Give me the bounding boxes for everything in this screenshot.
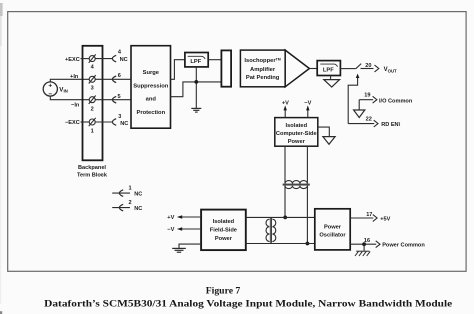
analog common triangle under LPF2 (324, 80, 340, 88)
svg-text:+In: +In (70, 74, 79, 80)
field ground wire (179, 244, 201, 248)
junction node pin16 (362, 242, 366, 246)
svg-text:2: 2 (91, 107, 94, 113)
wire amp to LPF2 (309, 68, 317, 70)
transformer T2 right winding (272, 219, 275, 241)
svg-text:NC: NC (120, 57, 128, 63)
svg-text:+5V: +5V (380, 216, 390, 222)
svg-text:NC: NC (134, 191, 142, 197)
pin 19 arrow (373, 96, 377, 103)
svg-text:20: 20 (365, 63, 371, 69)
ground (signal) (191, 108, 201, 112)
transformer T1 left lead (284, 146, 286, 183)
wire terminal3 to surge block, pin 6 (95, 78, 131, 80)
svg-text:−V: −V (304, 100, 311, 106)
wire +EXC (81, 58, 90, 60)
+V output arrow (182, 216, 201, 218)
voltage source Vin (43, 82, 57, 96)
svg-text:VIN: VIN (59, 86, 68, 93)
svg-text:−In: −In (71, 103, 80, 109)
svg-text:RD EN\: RD EN\ (381, 122, 400, 128)
svg-text:VOUT: VOUT (384, 67, 397, 73)
transformer T2 core (269, 218, 271, 243)
transformer T1 windings (285, 181, 307, 184)
terminal 1 (89, 118, 96, 126)
junction node top bus (283, 216, 287, 220)
pin 16 wire (350, 243, 376, 245)
LPF1 box (185, 53, 208, 67)
svg-text:Power Common: Power Common (382, 243, 425, 249)
pin 22 wire (348, 123, 374, 125)
wire LPF2 bottom to common (330, 76, 332, 80)
svg-text:Pat Pending: Pat Pending (246, 75, 280, 81)
svg-text:+EXC: +EXC (65, 57, 80, 63)
isochopper amplifier U2 (240, 50, 285, 87)
wire Vin- to terminal 2 (50, 96, 89, 100)
svg-text:Power: Power (215, 236, 233, 242)
svg-text:LPF: LPF (323, 68, 334, 74)
svg-text:I/O Common: I/O Common (379, 98, 413, 104)
svg-text:Protection: Protection (136, 110, 165, 116)
svg-text:4: 4 (118, 50, 122, 56)
ground (field) (172, 248, 186, 252)
pin 19 wire (359, 99, 373, 101)
svg-text:2: 2 (129, 200, 132, 206)
transformer T2 left winding (266, 219, 269, 241)
svg-text:+V: +V (282, 100, 289, 106)
svg-text:Isolated: Isolated (286, 123, 308, 129)
terminal 2 (89, 96, 96, 104)
svg-text:Amplifier: Amplifier (250, 67, 276, 73)
svg-text:Isolated: Isolated (213, 219, 235, 225)
svg-text:1: 1 (129, 186, 132, 192)
svg-text:−V: −V (167, 227, 174, 233)
svg-text:+: + (48, 83, 52, 90)
wire surge to LPF1 (171, 60, 185, 80)
connector pin 5 arrow (112, 96, 116, 103)
scan speck (101, 173, 104, 175)
computer-side common triangle (323, 137, 335, 145)
svg-text:NC: NC (120, 121, 128, 127)
wire LPF1 to barrier (208, 59, 221, 61)
svg-text:Oscillator: Oscillator (319, 233, 346, 239)
wire pin19 to common triangle (358, 100, 360, 110)
svg-text:1: 1 (91, 128, 94, 134)
switch control arrow from RD EN (348, 78, 357, 124)
terminal 4 (89, 54, 96, 62)
pin 16 arrow (376, 241, 380, 248)
svg-text:Field-Side: Field-Side (210, 228, 237, 234)
svg-text:−EXC: −EXC (65, 120, 80, 126)
svg-text:Dataforth’s SCM5B30/31 Analog: Dataforth’s SCM5B30/31 Analog Voltage In… (44, 299, 453, 310)
connector pin 4 arrow (112, 55, 116, 62)
switch blade (356, 64, 361, 69)
svg-text:LPF: LPF (190, 59, 201, 65)
svg-text:Suppression: Suppression (133, 84, 169, 90)
terminal 3 (89, 75, 96, 83)
junction node bottom bus (306, 242, 310, 246)
wire -EXC (81, 121, 90, 123)
svg-text:Figure 7: Figure 7 (206, 286, 241, 297)
wire Vin+ to terminal 3 (50, 79, 89, 82)
svg-text:3: 3 (118, 114, 121, 120)
connector pin 6 arrow (112, 76, 116, 83)
svg-text:Term Block: Term Block (77, 172, 108, 178)
bottom bus wire (246, 243, 315, 245)
isolated field-side power (201, 210, 246, 251)
pin 20 wire (361, 68, 374, 70)
svg-text:NC: NC (134, 206, 142, 212)
svg-text:+V: +V (167, 215, 174, 221)
top bus wire (246, 216, 315, 218)
wire LPF1 bottom to ground (195, 67, 197, 108)
+V arrow up (284, 110, 286, 118)
pin 17 wire (350, 217, 373, 219)
svg-text:17: 17 (366, 212, 372, 218)
scan artifact left edge (0, 3, 3, 16)
svg-text:19: 19 (364, 93, 370, 99)
isolated computer-side power (275, 118, 318, 147)
pin 20 arrow (375, 65, 379, 72)
chassis ground (363, 244, 365, 251)
svg-text:IsochopperTM: IsochopperTM (244, 58, 280, 65)
common triangle (354, 110, 365, 118)
transformer T1 core (283, 183, 310, 185)
surge suppression block U1 (131, 46, 171, 129)
junction node (194, 80, 198, 84)
wire surge lower output to barrier (171, 82, 222, 97)
NC pin 1 (112, 192, 130, 194)
svg-text:Backpanel: Backpanel (78, 165, 106, 171)
svg-text:Surge: Surge (143, 70, 160, 76)
svg-text:Computer-Side: Computer-Side (276, 131, 317, 137)
wire terminal4 to NC pin 4 (95, 58, 112, 60)
wire terminal2 to surge block, pin 5 (95, 99, 131, 101)
power oscillator (315, 209, 350, 250)
T1 lower leads (284, 186, 286, 218)
LPF2 box (317, 61, 340, 76)
svg-text:and: and (146, 97, 157, 103)
-V output arrow (182, 228, 201, 230)
svg-text:6: 6 (118, 73, 121, 79)
transformer T1 right lead (306, 146, 308, 183)
pin 22 arrow (374, 120, 378, 127)
connector pin 3 arrow (112, 119, 116, 126)
pin 17 arrow (373, 215, 377, 222)
svg-text:5: 5 (118, 94, 121, 100)
backpanel terminal block (83, 46, 103, 161)
svg-text:Power: Power (288, 139, 306, 145)
svg-text:Power: Power (324, 225, 342, 231)
isolation barrier (221, 50, 231, 86)
wire to computer-side common (318, 127, 330, 137)
NC pin 2 (112, 207, 130, 209)
svg-text:4: 4 (91, 65, 95, 71)
wire terminal1 to NC pin 3 (95, 121, 112, 123)
svg-text:22: 22 (366, 116, 372, 122)
svg-text:3: 3 (91, 86, 94, 92)
-V arrow up (307, 110, 309, 118)
scan nub bottom-left (0, 311, 2, 314)
wire LPF2 to switch (340, 68, 355, 70)
